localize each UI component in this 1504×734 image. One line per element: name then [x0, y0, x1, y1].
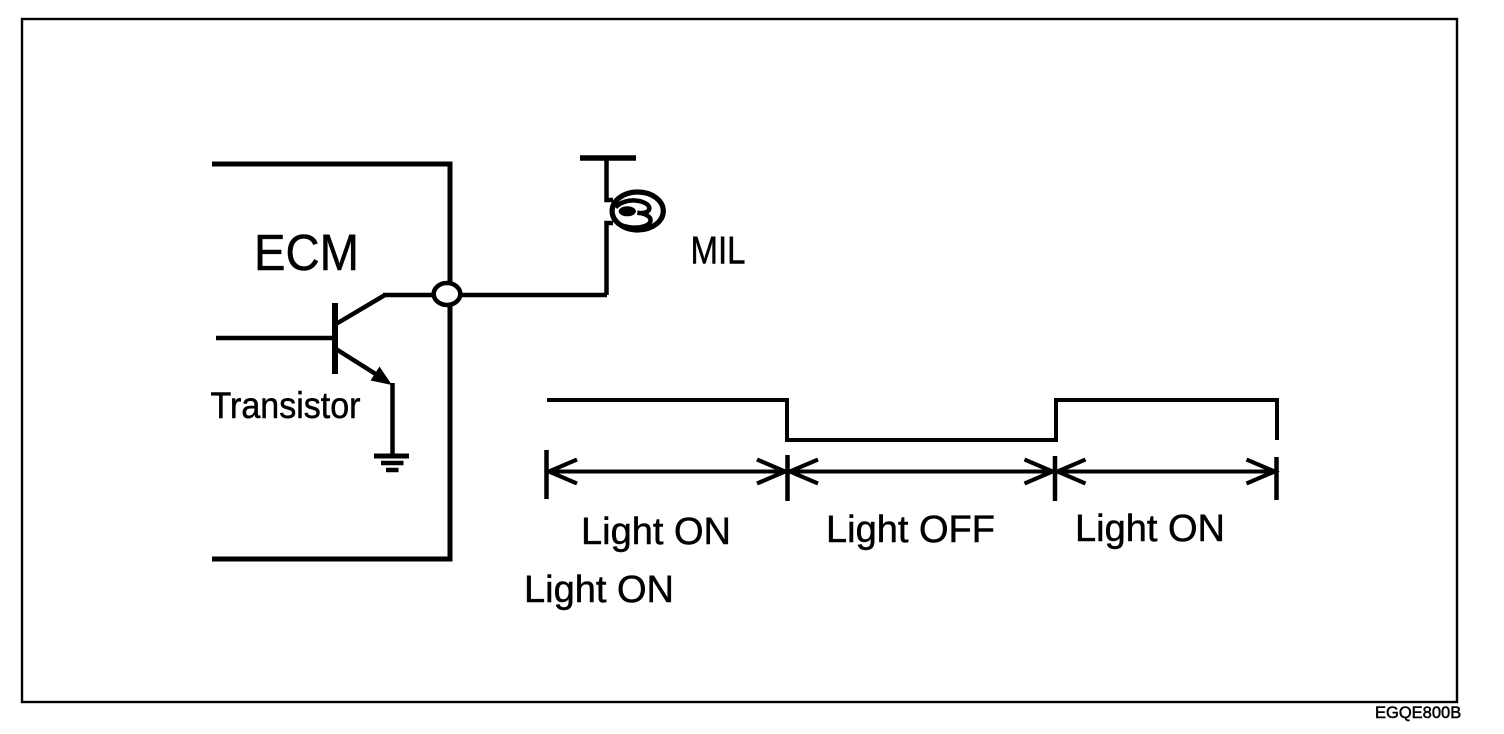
arrowhead left at tick1 — [549, 460, 577, 484]
power bar — [580, 155, 636, 161]
ground — [374, 456, 409, 470]
svg-text:Light ON: Light ON — [581, 511, 731, 553]
lamp filament blob — [619, 206, 636, 216]
dimension line — [547, 470, 1277, 474]
ECM block outline — [212, 164, 450, 559]
wire collector to node — [383, 293, 436, 298]
svg-text:Light OFF: Light OFF — [826, 509, 995, 551]
wire lamp to node wire — [607, 223, 614, 295]
arrowhead left at tick2 — [790, 460, 818, 484]
svg-text:Light ON: Light ON — [1075, 508, 1225, 550]
svg-text:Light ON: Light ON — [524, 569, 674, 611]
svg-text:EGQE800B: EGQE800B — [1375, 704, 1461, 722]
transistor Q1 emitter arrowhead — [371, 367, 393, 386]
arrowhead right at tick2 — [757, 460, 785, 484]
transistor Q1 base bar — [332, 303, 338, 374]
tick 4 — [1274, 457, 1279, 500]
lamp filament — [616, 200, 651, 227]
wire power bar to lamp — [607, 160, 614, 200]
svg-text:ECM: ECM — [254, 224, 359, 281]
svg-text:Transistor: Transistor — [211, 385, 361, 426]
wire emitter to ground — [390, 383, 395, 456]
tick 2 — [785, 455, 790, 501]
tick 1 — [544, 450, 549, 499]
transistor Q1 emitter diagonal — [336, 349, 382, 378]
waveform trace — [547, 400, 1277, 440]
svg-text:MIL: MIL — [691, 230, 746, 273]
node (junction circle) — [434, 283, 461, 305]
tick 3 — [1053, 456, 1058, 501]
arrowhead right at tick4 — [1247, 460, 1275, 484]
arrowhead right at tick3 — [1025, 460, 1053, 484]
lamp MIL bulb outline — [612, 192, 663, 230]
wire node to lamp branch — [447, 293, 607, 298]
transistor Q1 base wire — [216, 336, 335, 341]
transistor Q1 collector diagonal — [336, 295, 385, 324]
arrowhead left at tick3 — [1058, 460, 1086, 484]
